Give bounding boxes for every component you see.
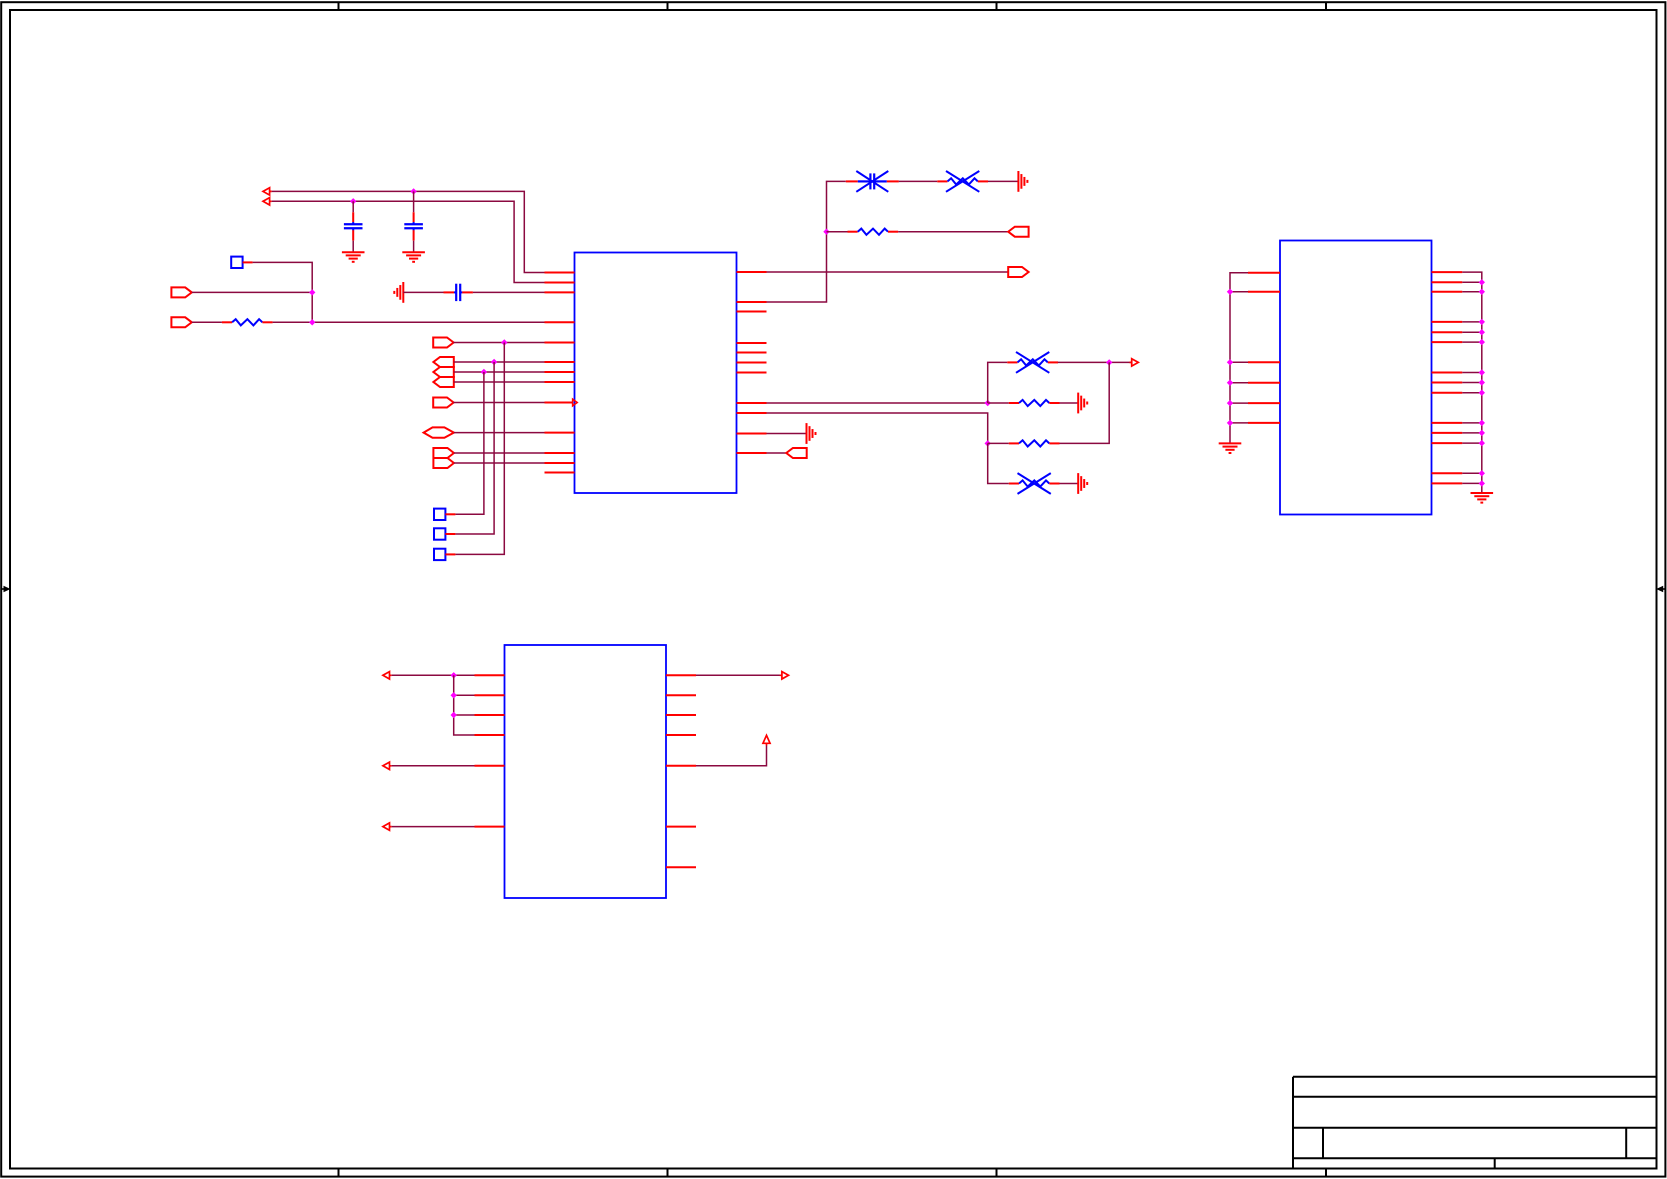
wire row1 to U3 — [392, 674, 475, 676]
wire U1 pin out to port P10 — [767, 271, 1009, 273]
net arrow left row1 — [383, 672, 392, 679]
resistor R2 (crossed out) — [937, 171, 988, 192]
wire P5 row to square J2 — [455, 372, 484, 514]
port P3 (pentagon right) — [433, 338, 453, 348]
junction dots U2 right bus — [1479, 279, 1485, 487]
wire U1 pin to net node A — [767, 402, 988, 404]
wire R3 to port P11 — [898, 231, 1008, 233]
wire R7 to ground — [1060, 483, 1079, 485]
net arrow VCC1 (top left) — [263, 188, 272, 195]
wire node C down to R7 — [988, 443, 1009, 483]
wire bus to pin row2 — [454, 694, 475, 696]
port P5 (pentagon left) — [433, 367, 453, 377]
wire P2 to R1 — [192, 321, 222, 323]
wire node A up to R4 row — [988, 362, 1008, 403]
wire U1 pin to port P12 — [767, 452, 787, 454]
wire U3 out to right arrow — [696, 674, 782, 676]
U1 pin 9 input arrow marker — [573, 399, 578, 406]
resistor R7 (crossed out) — [1009, 473, 1060, 494]
wire U2 right bus — [1462, 272, 1482, 493]
port P7 (pentagon right) — [433, 398, 453, 408]
wire R5 to ground — [1060, 402, 1079, 404]
node junction P5/J2 — [481, 369, 487, 375]
J2 pin stub — [445, 513, 455, 515]
net arrow left row5 — [383, 762, 392, 769]
wire C3 to U1 pin 3 — [473, 291, 545, 293]
ground right of R7 (rotated) — [1078, 473, 1087, 494]
left edge center arrow marker — [1, 586, 10, 593]
node junction U3 bus row2 — [451, 692, 457, 698]
net arrow left row6 — [383, 823, 392, 830]
wire R6 up to node B — [1060, 362, 1110, 443]
wire C1 stem — [352, 201, 354, 252]
node junction clock branch — [823, 229, 829, 235]
zone tick marks top and bottom — [339, 2, 1327, 1176]
wire R1 to U1 pin 4 — [273, 321, 545, 323]
IC U3 body — [505, 645, 667, 898]
net arrow out (right) — [1130, 359, 1139, 366]
wire U1 clock net up — [767, 181, 846, 302]
net arrow VCC2 (second left) — [263, 198, 272, 205]
capacitor C1 — [344, 212, 363, 240]
U1 left pin stubs — [545, 273, 575, 473]
wire net2 — [272, 201, 545, 282]
capacitor C4 (crossed out) — [846, 171, 899, 192]
J4 pin stub — [445, 553, 455, 555]
connector J4 (square) — [434, 549, 445, 560]
port P9 (double chevron) — [433, 448, 454, 468]
port P2 (pentagon right) — [171, 317, 191, 327]
connector J2 (square) — [434, 509, 445, 520]
connector J1 (square) — [231, 257, 242, 268]
capacitor C3 (series) — [444, 284, 473, 301]
wire P4 to U1 pin 6 — [454, 361, 545, 363]
wire U2 left bus — [1230, 273, 1248, 444]
wire P3 to U1 pin 5 — [453, 342, 544, 344]
connector J3 (square) — [434, 528, 445, 539]
resistor R1 — [222, 319, 273, 325]
node junction U3 bus row1 — [451, 672, 457, 678]
wire P6 to U1 pin 8 — [454, 381, 545, 383]
wire U3 out to up arrow — [696, 746, 767, 766]
IC U1 body — [575, 253, 737, 494]
ground right of R2 (rotated) — [1018, 171, 1027, 192]
wires U2 right pins to bus — [1462, 282, 1482, 483]
wire P5 to U1 pin 7 — [454, 371, 545, 373]
node junction net1/C2 — [410, 188, 416, 194]
wire P7 to U1 pin 9 — [453, 402, 544, 404]
wire bus to pin row3 — [454, 714, 475, 716]
U3 right pin stubs — [666, 675, 696, 867]
node junction P4/J3 — [491, 359, 497, 365]
IC U2 body — [1280, 241, 1432, 515]
ground below U2 right bus — [1471, 493, 1494, 503]
resistor R5 — [1009, 400, 1060, 406]
wire P3 row to square J4 — [455, 343, 504, 555]
U3 left pin stubs — [475, 675, 505, 826]
U1 right pin stubs — [737, 272, 767, 453]
J3 pin stub — [445, 533, 455, 535]
wire node A to R5 — [988, 402, 1009, 404]
wire C4 to R2 — [899, 180, 938, 182]
resistor R4 (crossed out) — [1007, 352, 1058, 373]
wire C2 stem — [413, 191, 415, 252]
wire U1 pin to ground — [767, 433, 807, 435]
wire P1 to junction — [192, 291, 312, 293]
wire branch to R3 — [827, 231, 848, 233]
wire row5 to U3 — [392, 765, 475, 767]
U2 left pin stubs — [1248, 273, 1280, 423]
wire node C to R6 — [988, 442, 1009, 444]
net arrow right — [780, 672, 789, 679]
right edge center arrow marker — [1656, 586, 1665, 593]
ground right of R5 (rotated) — [1078, 393, 1087, 414]
port P10 (pentagon right) — [1008, 267, 1028, 277]
net arrow up — [763, 735, 770, 745]
wire R4 to node B — [1058, 361, 1132, 363]
node junction R1 row — [309, 319, 315, 325]
U2 right pin stubs — [1432, 272, 1463, 483]
port P4 (pentagon left) — [433, 357, 453, 367]
wire row6 to U3 — [392, 826, 475, 828]
wire U1 pin to node C — [767, 413, 988, 443]
node junction P1 — [309, 289, 315, 295]
title block — [1293, 1077, 1657, 1169]
port P1 (pentagon right) — [171, 287, 191, 297]
node A junction — [985, 400, 991, 406]
node B junction — [1106, 359, 1112, 365]
wire gnd to C3 — [403, 291, 443, 293]
ground right of U1 (rotated) — [807, 423, 816, 444]
J1 pin stub — [243, 261, 253, 263]
wire P9b to U1 pin 12 — [454, 462, 545, 464]
wire net1 — [272, 191, 545, 272]
wire P8 to U1 pin 10 — [454, 432, 545, 434]
wire R2 to ground — [988, 180, 1018, 182]
wire U3 left bus — [454, 675, 475, 735]
node junction net2/C1 — [350, 198, 356, 204]
wires U2 left pins to bus — [1230, 292, 1248, 423]
resistor R3 — [848, 229, 899, 235]
wire P9a to U1 pin 11 — [454, 452, 545, 454]
ground below U2 left bus — [1219, 443, 1242, 453]
ground below C1 — [342, 252, 365, 262]
junction dots U2 left bus — [1227, 289, 1233, 427]
port P6 (pentagon left) — [433, 377, 453, 387]
node junction P3/J4 — [501, 339, 507, 345]
wire J1 down — [253, 262, 313, 322]
capacitor C2 — [404, 212, 423, 240]
node junction U3 bus row3 — [451, 712, 457, 718]
node C junction — [985, 440, 991, 446]
wire P4 row to square J3 — [455, 362, 494, 534]
ground below C2 — [402, 252, 425, 262]
port P11 (pentagon left) — [1008, 227, 1028, 237]
port P8 (hexagon) — [424, 427, 454, 437]
port P12 (pentagon left) — [786, 448, 806, 458]
resistor R6 — [1009, 440, 1060, 446]
ground left of C3 (rotated) — [394, 282, 403, 303]
